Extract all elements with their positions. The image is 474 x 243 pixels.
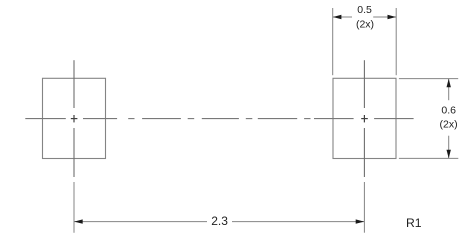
dimension 2.3: dimension line [74,221,364,223]
center cross (left pad) [71,115,78,122]
dimension 2.3: arrowheads [74,219,83,223]
svg-text:(2x): (2x) [356,18,374,30]
dimension 0.6 (2x): arrowheads [447,79,451,88]
pad P2 (right land) [333,78,396,158]
dimension 0.6 (2x): extension lines [399,79,458,159]
pad P1 (left land) [43,78,106,158]
center cross (right pad) [361,115,368,122]
centerline vertical (right pad) [363,60,365,177]
dimension 0.5 (2x): arrowheads [333,15,342,19]
centerline horizontal (dash-dot through both pad centers) [25,118,413,120]
svg-text:(2x): (2x) [440,119,458,131]
dimension 0.6 (2x): dimension line [448,79,450,159]
dimension 0.5 (2x): extension lines [333,8,397,75]
svg-text:R1: R1 [406,216,422,230]
dimension 2.3: extension lines [74,182,364,233]
svg-text:0.6: 0.6 [441,104,456,116]
svg-text:0.5: 0.5 [357,4,372,16]
centerline vertical (left pad) [73,60,75,177]
dimension 0.5 (2x): dimension line [333,16,397,18]
svg-text:2.3: 2.3 [211,214,228,228]
